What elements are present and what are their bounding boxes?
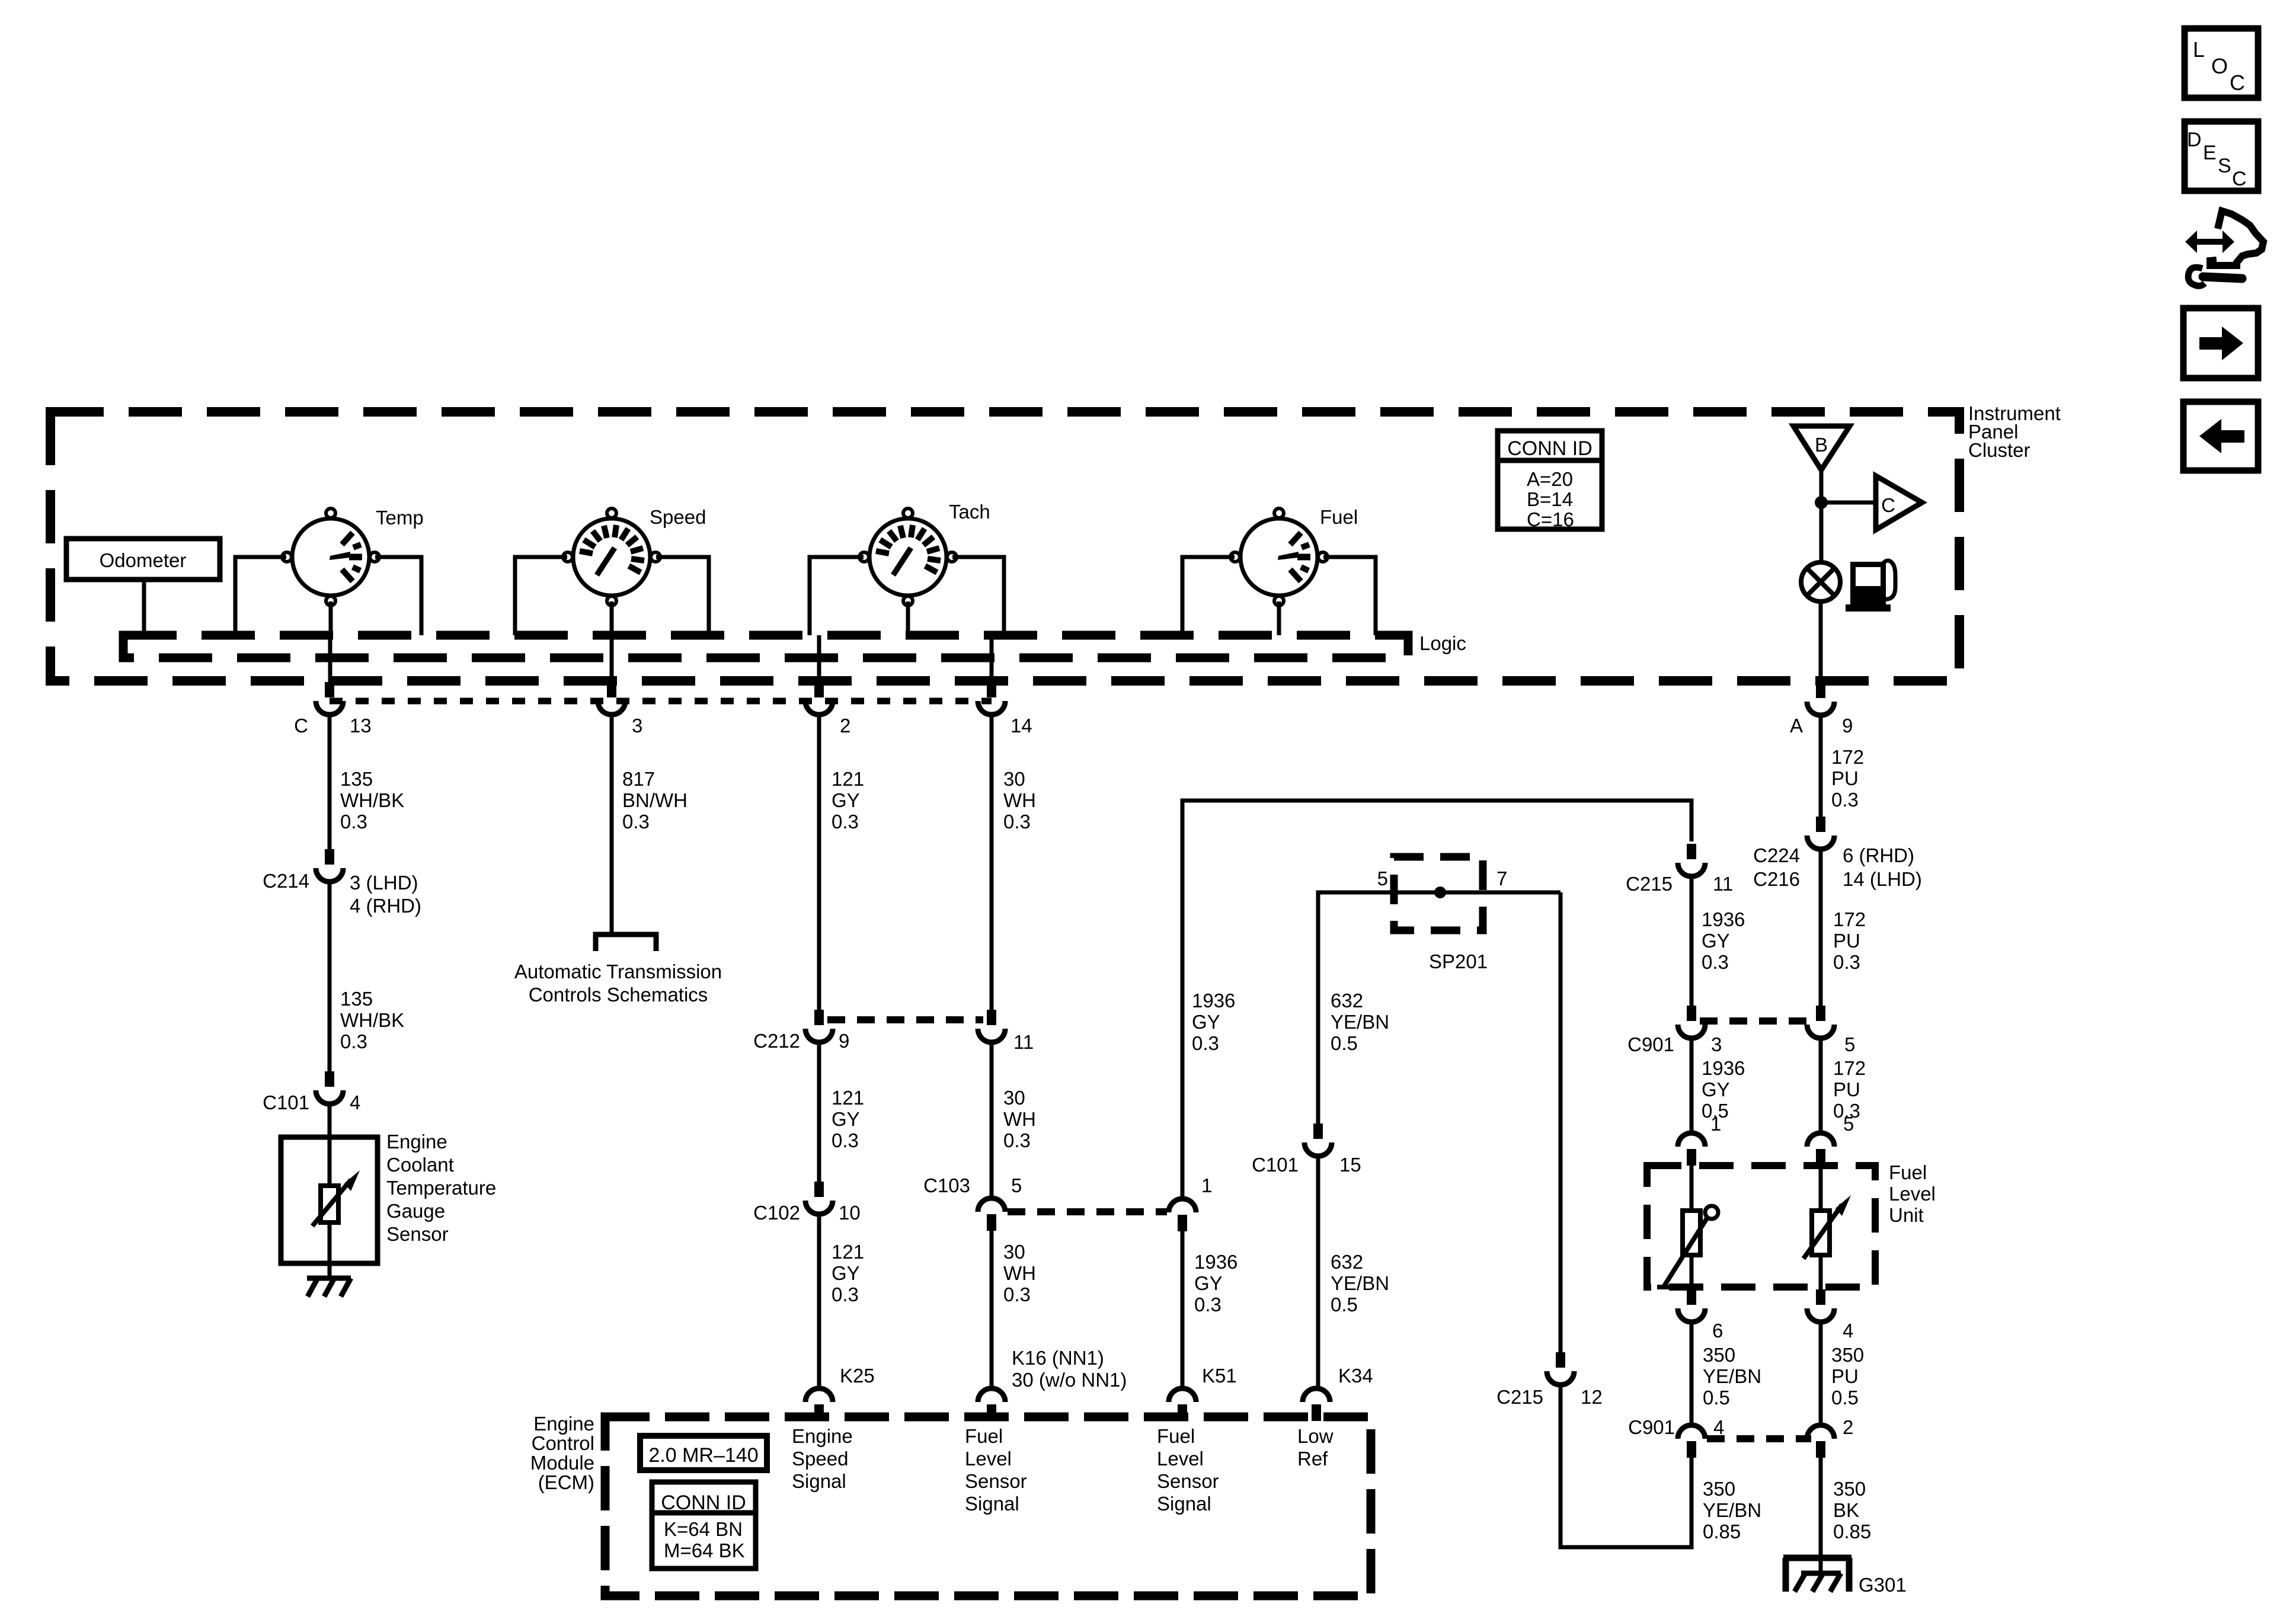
label C224 C216	[1753, 844, 1800, 890]
svg-text:GY: GY	[832, 1108, 860, 1130]
connector C102 pin 10	[805, 1182, 833, 1214]
svg-text:C: C	[294, 715, 308, 737]
connector pin 6	[1678, 1289, 1705, 1322]
icon back-arrow box	[2183, 402, 2258, 470]
wire 30 WH b	[990, 1042, 994, 1198]
svg-text:Automatic Transmission: Automatic Transmission	[514, 961, 722, 982]
wire speed right loop	[656, 557, 709, 635]
svg-text:9: 9	[1842, 715, 1853, 737]
svg-text:817: 817	[622, 768, 655, 790]
gauge Temp	[282, 508, 379, 606]
svg-text:1: 1	[1201, 1174, 1212, 1196]
label C212	[753, 1030, 800, 1052]
svg-text:B=14: B=14	[1527, 488, 1573, 510]
svg-text:172: 172	[1833, 1057, 1866, 1079]
wire odometer stem	[142, 580, 146, 635]
wire fuel right loop	[1323, 557, 1376, 635]
svg-text:Level: Level	[1889, 1183, 1936, 1205]
label Fuel Level Sensor Signal (1)	[965, 1425, 1027, 1515]
label 4 (pin)	[1843, 1320, 1853, 1342]
engine control module box	[605, 1417, 1371, 1596]
svg-text:Speed: Speed	[650, 506, 706, 528]
label 5 (fuel unit)	[1843, 1113, 1854, 1135]
svg-text:L: L	[2193, 37, 2205, 62]
svg-text:Temp: Temp	[376, 507, 424, 529]
label 12	[1581, 1386, 1603, 1408]
label 5 (SP201)	[1377, 868, 1388, 889]
svg-text:0.3: 0.3	[832, 811, 859, 833]
svg-text:Engine: Engine	[533, 1413, 594, 1435]
gauge Speed	[563, 508, 660, 606]
svg-text:0.3: 0.3	[1833, 951, 1860, 973]
wire 1936 GY top run	[1182, 801, 1691, 1198]
svg-text:C215: C215	[1626, 873, 1673, 895]
svg-text:C102: C102	[753, 1202, 800, 1224]
splice SP201 dot	[1434, 886, 1446, 898]
svg-text:0.3: 0.3	[1702, 951, 1729, 973]
svg-text:0.3: 0.3	[1194, 1294, 1221, 1315]
svg-text:632: 632	[1331, 990, 1363, 1012]
svg-text:D: D	[2187, 129, 2202, 151]
svg-text:Fuel: Fuel	[1889, 1161, 1927, 1183]
wire speed left loop	[515, 557, 567, 635]
svg-text:6: 6	[1712, 1320, 1723, 1342]
svg-text:1936: 1936	[1194, 1251, 1237, 1273]
svg-text:11: 11	[1013, 1031, 1034, 1053]
label 1936 GY 0.5	[1702, 1057, 1745, 1122]
wire tach left loop	[810, 557, 864, 635]
wire SP201 to C215-12	[1559, 892, 1563, 1352]
label 30 WH 0.3 a	[1003, 768, 1036, 833]
wire 121 GY b	[817, 1042, 821, 1182]
label Engine Control Module (ECM)	[530, 1413, 594, 1493]
svg-text:E: E	[2203, 142, 2217, 164]
label 2.0 MR-140 box	[640, 1436, 767, 1470]
label Fuel Level Unit	[1889, 1161, 1936, 1226]
dashed link C103	[1008, 1208, 1167, 1215]
svg-text:(ECM): (ECM)	[538, 1471, 594, 1493]
svg-text:Cluster: Cluster	[1968, 439, 2030, 461]
svg-text:GY: GY	[832, 1262, 860, 1284]
svg-text:Gauge: Gauge	[386, 1200, 445, 1222]
label 3 (LHD) 4 (RHD)	[350, 872, 421, 917]
wire temp to pin 13	[328, 635, 332, 682]
label Engine Speed Signal	[792, 1425, 853, 1492]
label 121 GY 0.3 a	[832, 768, 864, 833]
wire fuel left loop	[1182, 557, 1235, 635]
svg-text:Controls Schematics: Controls Schematics	[529, 984, 708, 1006]
connector K34	[1303, 1388, 1330, 1421]
connector C215 pin 12	[1547, 1352, 1574, 1385]
svg-text:0.3: 0.3	[1003, 1129, 1031, 1151]
svg-text:GY: GY	[1702, 1078, 1730, 1100]
svg-text:Sensor: Sensor	[1157, 1470, 1219, 1492]
label SP201	[1429, 950, 1488, 972]
svg-text:0.3: 0.3	[622, 811, 650, 833]
wire 632 YE/BN b	[1316, 1156, 1320, 1388]
label 172 PU 0.3 a	[1831, 746, 1864, 811]
svg-text:Fuel: Fuel	[1320, 506, 1358, 528]
label A	[1790, 715, 1803, 737]
svg-text:13: 13	[350, 715, 372, 737]
label 2 (C901)	[1843, 1416, 1853, 1438]
svg-text:5: 5	[1843, 1113, 1854, 1135]
gauge Tach	[859, 508, 957, 606]
svg-text:Speed: Speed	[792, 1448, 848, 1470]
svg-text:K25: K25	[840, 1365, 875, 1387]
svg-text:172: 172	[1833, 908, 1866, 930]
svg-text:GY: GY	[832, 789, 860, 811]
svg-text:WH: WH	[1003, 1262, 1036, 1284]
wire B to junction	[1819, 470, 1824, 562]
label 11	[1013, 1031, 1034, 1053]
label 30 WH 0.3 b	[1003, 1087, 1036, 1151]
wire tach bottom	[906, 601, 910, 635]
svg-text:0.3: 0.3	[832, 1129, 859, 1151]
svg-text:9: 9	[839, 1030, 849, 1052]
svg-text:350: 350	[1703, 1478, 1735, 1500]
svg-text:4: 4	[350, 1092, 360, 1113]
svg-text:Sensor: Sensor	[386, 1223, 449, 1245]
icon LOC box	[2185, 28, 2258, 98]
connector C901 pin 5	[1807, 1006, 1834, 1038]
label K51	[1202, 1365, 1237, 1387]
wire 121 GY c	[817, 1214, 821, 1388]
svg-text:0.3: 0.3	[340, 1030, 367, 1052]
offpage connector to transmission	[596, 934, 656, 951]
label 350 YE/BN 0.5	[1703, 1344, 1761, 1409]
svg-text:G301: G301	[1859, 1574, 1907, 1596]
svg-text:Coolant: Coolant	[386, 1154, 454, 1176]
svg-text:11: 11	[1713, 873, 1733, 895]
svg-text:PU: PU	[1833, 1078, 1860, 1100]
connector K25	[805, 1388, 833, 1421]
label C101 (15)	[1252, 1154, 1299, 1176]
label Logic	[1419, 632, 1466, 654]
wire 350 YE/BN b	[1560, 1385, 1691, 1547]
svg-text:C: C	[2232, 168, 2247, 190]
wire temp bottom	[329, 601, 333, 635]
connector C101 pin 4	[316, 1071, 343, 1104]
label 30 WH 0.3 c	[1003, 1241, 1036, 1305]
svg-text:Control: Control	[532, 1432, 594, 1454]
connector C212 pin 9	[805, 1010, 833, 1042]
svg-text:YE/BN: YE/BN	[1703, 1365, 1761, 1387]
svg-text:S: S	[2218, 155, 2231, 177]
label 350 YE/BN 0.85	[1703, 1478, 1761, 1542]
wire 1936 GY b	[1181, 1231, 1185, 1388]
wire 172 PU c	[1819, 1038, 1823, 1132]
label 135 WH/BK 0.3 lower	[340, 988, 404, 1052]
label 13	[350, 715, 372, 737]
connector C224/C216	[1807, 817, 1834, 849]
svg-text:0.3: 0.3	[1003, 1283, 1031, 1305]
svg-text:C216: C216	[1753, 868, 1800, 890]
dashed link C901 bottom	[1707, 1435, 1811, 1442]
svg-text:0.5: 0.5	[1331, 1294, 1358, 1315]
wire 30 WH a	[990, 713, 994, 1010]
svg-text:3: 3	[632, 715, 642, 737]
svg-text:2: 2	[1843, 1416, 1853, 1438]
svg-text:2.0 MR–140: 2.0 MR–140	[648, 1444, 758, 1467]
label 3	[632, 715, 642, 737]
wire fuel bottom	[1277, 601, 1281, 635]
svg-text:WH: WH	[1003, 789, 1036, 811]
svg-text:O: O	[2211, 54, 2228, 78]
svg-text:Signal: Signal	[792, 1470, 846, 1492]
svg-text:4: 4	[1843, 1320, 1853, 1342]
label 7 (SP201)	[1496, 868, 1507, 889]
connector pin 14	[978, 682, 1005, 715]
label 172 PU 0.3 b	[1833, 908, 1866, 973]
svg-text:YE/BN: YE/BN	[1331, 1011, 1389, 1033]
svg-text:Odometer: Odometer	[100, 549, 187, 571]
svg-text:Tach: Tach	[949, 501, 990, 523]
svg-text:4 (RHD): 4 (RHD)	[350, 895, 421, 917]
label 1936 GY 0.3 b	[1194, 1251, 1237, 1315]
label 632 YE/BN 0.5 b	[1331, 1251, 1389, 1315]
label 15	[1339, 1154, 1361, 1176]
svg-text:0.5: 0.5	[1831, 1387, 1859, 1409]
svg-text:6 (RHD): 6 (RHD)	[1843, 844, 1914, 866]
label 817 BN/WH 0.3	[622, 768, 687, 833]
svg-text:30: 30	[1003, 1087, 1025, 1109]
svg-text:3 (LHD): 3 (LHD)	[350, 872, 418, 894]
label 632 YE/BN 0.5 a	[1331, 990, 1389, 1054]
svg-text:3: 3	[1711, 1033, 1722, 1055]
label C215	[1626, 873, 1673, 895]
label Automatic Transmission Controls Schematics	[514, 961, 722, 1006]
label Fuel Level Sensor Signal (2)	[1157, 1425, 1219, 1515]
wire 350 YE/BN a	[1690, 1320, 1694, 1425]
label Tach	[949, 501, 990, 523]
wire sender to pin 6	[1690, 1255, 1694, 1289]
svg-text:1936: 1936	[1702, 908, 1745, 930]
label 350 PU 0.5	[1831, 1344, 1864, 1409]
resistor fuel level sender (left)	[1657, 1206, 1718, 1287]
wire 135 WH/BK lower	[328, 881, 332, 1071]
connector face line	[330, 698, 992, 705]
wire lamp to pin A9	[1819, 601, 1823, 683]
wire sender to pin 4	[1819, 1255, 1823, 1289]
svg-text:5: 5	[1011, 1174, 1022, 1196]
label 121 GY 0.3 b	[832, 1087, 864, 1151]
label 10	[839, 1202, 861, 1224]
svg-text:350: 350	[1833, 1478, 1866, 1500]
label Temp	[376, 507, 424, 529]
connector pin 2 (C901)	[1807, 1425, 1834, 1458]
svg-text:15: 15	[1339, 1154, 1361, 1176]
svg-text:YE/BN: YE/BN	[1331, 1272, 1389, 1294]
svg-text:Level: Level	[1157, 1448, 1204, 1470]
svg-text:0.5: 0.5	[1331, 1032, 1358, 1054]
wire C101 to sensor	[328, 1103, 332, 1186]
svg-text:C224: C224	[1753, 844, 1800, 866]
connector C pin 13	[316, 682, 343, 715]
svg-text:Module: Module	[530, 1452, 594, 1474]
net triangle B	[1793, 426, 1850, 470]
label C103	[923, 1174, 970, 1196]
wire temp left loop	[235, 557, 286, 635]
label 4 (C901)	[1713, 1416, 1724, 1438]
fuel pump icon	[1846, 561, 1895, 612]
svg-text:350: 350	[1703, 1344, 1735, 1366]
connector pin 5 (fuel unit)	[1807, 1133, 1834, 1166]
svg-text:PU: PU	[1831, 1365, 1859, 1387]
wire junction to C	[1821, 501, 1876, 505]
label 9	[1842, 715, 1853, 737]
label 135 WH/BK 0.3 upper	[340, 768, 404, 833]
connector pin 3	[598, 682, 625, 715]
svg-text:0.3: 0.3	[1192, 1032, 1219, 1054]
logic box	[123, 635, 1408, 658]
svg-text:12: 12	[1581, 1386, 1603, 1408]
svg-text:B: B	[1815, 434, 1828, 456]
svg-text:0.3: 0.3	[1831, 789, 1859, 811]
svg-text:A: A	[1790, 715, 1803, 737]
svg-text:7: 7	[1496, 868, 1507, 889]
svg-text:5: 5	[1377, 868, 1388, 889]
wire speed to pin 3	[610, 635, 614, 682]
label 1	[1201, 1174, 1212, 1196]
connector pin 4	[1807, 1289, 1834, 1322]
svg-text:SP201: SP201	[1429, 950, 1488, 972]
svg-text:Ref: Ref	[1297, 1448, 1328, 1470]
label 5 (C901)	[1844, 1033, 1855, 1055]
svg-text:GY: GY	[1702, 930, 1730, 952]
label 14	[1011, 715, 1032, 737]
svg-text:4: 4	[1713, 1416, 1724, 1438]
wire tach to pin 14	[990, 635, 994, 682]
svg-text:30: 30	[1003, 768, 1025, 790]
wire speed bottom	[610, 601, 614, 635]
wire 172 PU b	[1819, 849, 1823, 1006]
wire 121 GY a	[817, 713, 821, 1010]
label 1 (fuel unit)	[1710, 1113, 1721, 1135]
svg-text:C214: C214	[263, 870, 309, 892]
svg-text:30: 30	[1003, 1241, 1025, 1263]
icon DESC box	[2185, 121, 2258, 191]
svg-text:K34: K34	[1338, 1365, 1373, 1387]
svg-text:121: 121	[832, 1241, 864, 1263]
svg-text:C901: C901	[1627, 1033, 1674, 1055]
wire 1936 GY c	[1690, 876, 1694, 1006]
label 2	[840, 715, 850, 737]
connector C901 pin 3	[1678, 1006, 1705, 1038]
label 121 GY 0.3 c	[832, 1241, 864, 1305]
svg-text:C=16: C=16	[1527, 508, 1574, 530]
svg-text:121: 121	[832, 768, 864, 790]
dashed link C901 top	[1700, 1017, 1811, 1025]
svg-text:K=64 BN: K=64 BN	[664, 1518, 743, 1540]
svg-text:0.3: 0.3	[340, 811, 367, 833]
label Speed	[650, 506, 706, 528]
wire temp right loop	[375, 557, 421, 635]
svg-text:K16 (NN1): K16 (NN1)	[1012, 1347, 1104, 1369]
svg-text:1936: 1936	[1702, 1057, 1745, 1079]
svg-text:C101: C101	[1252, 1154, 1299, 1176]
label C901 (4)	[1628, 1416, 1675, 1438]
ground (ECT sensor)	[307, 1278, 351, 1297]
svg-text:PU: PU	[1831, 767, 1859, 789]
svg-text:C: C	[1881, 494, 1895, 516]
label K25	[840, 1365, 875, 1387]
svg-text:1: 1	[1710, 1113, 1721, 1135]
connector pin 1 (fuel unit)	[1678, 1133, 1705, 1166]
wire 350 BK	[1819, 1458, 1823, 1573]
conn id table (ECM)	[652, 1482, 756, 1569]
svg-text:0.85: 0.85	[1833, 1521, 1871, 1542]
label 11 (C215)	[1713, 873, 1733, 895]
svg-text:Signal: Signal	[1157, 1493, 1211, 1515]
label 1936 GY 0.3 c	[1702, 908, 1745, 973]
label 4	[350, 1092, 360, 1113]
connector pin 2	[805, 682, 833, 715]
svg-text:Low: Low	[1297, 1425, 1334, 1447]
svg-text:0.3: 0.3	[832, 1283, 859, 1305]
label 3 (C901)	[1711, 1033, 1722, 1055]
svg-text:1936: 1936	[1192, 990, 1235, 1012]
svg-text:C212: C212	[753, 1030, 800, 1052]
svg-text:121: 121	[832, 1087, 864, 1109]
svg-text:Engine: Engine	[386, 1131, 447, 1153]
label Engine Coolant Temperature Gauge Sensor	[386, 1131, 496, 1245]
label 6	[1712, 1320, 1723, 1342]
wire tach to pin 2	[817, 635, 821, 682]
svg-text:C215: C215	[1496, 1386, 1543, 1408]
svg-text:YE/BN: YE/BN	[1703, 1499, 1761, 1521]
connector C214	[316, 849, 343, 882]
svg-text:C901: C901	[1628, 1416, 1675, 1438]
svg-text:30 (w/o NN1): 30 (w/o NN1)	[1012, 1369, 1127, 1391]
wire into fuel unit right	[1819, 1166, 1823, 1211]
wire 817 BN/WH	[610, 713, 614, 932]
svg-text:135: 135	[340, 768, 373, 790]
connector K16	[978, 1388, 1005, 1421]
svg-text:5: 5	[1844, 1033, 1855, 1055]
label C102	[753, 1202, 800, 1224]
connector C901 pin 4	[1678, 1425, 1705, 1458]
svg-text:C101: C101	[263, 1092, 309, 1113]
instrument panel cluster box	[50, 412, 1959, 681]
resistor ECT sender	[312, 1170, 360, 1226]
connector C101 pin 15	[1304, 1124, 1332, 1156]
svg-text:BK: BK	[1833, 1499, 1859, 1521]
svg-text:10: 10	[839, 1202, 861, 1224]
connector K51	[1169, 1388, 1196, 1421]
wire 172 PU a	[1819, 714, 1823, 817]
svg-text:14: 14	[1011, 715, 1032, 737]
svg-text:PU: PU	[1833, 930, 1860, 952]
svg-text:WH/BK: WH/BK	[340, 1009, 404, 1031]
wire sensor to ground	[328, 1222, 332, 1278]
svg-text:C: C	[2230, 71, 2245, 95]
wire 135 WH/BK upper	[328, 713, 332, 849]
connector A pin 9	[1807, 683, 1834, 715]
fuel level unit box	[1647, 1166, 1875, 1287]
svg-text:Fuel: Fuel	[965, 1425, 1003, 1447]
svg-text:Fuel: Fuel	[1157, 1425, 1195, 1447]
icon forward-arrow box	[2183, 308, 2258, 378]
svg-text:WH/BK: WH/BK	[340, 789, 404, 811]
wire 632 YE/BN a	[1318, 892, 1560, 1124]
svg-text:CONN ID: CONN ID	[1507, 437, 1593, 460]
wire 1936 GY d	[1690, 1038, 1694, 1132]
svg-text:0.5: 0.5	[1703, 1387, 1730, 1409]
svg-text:Unit: Unit	[1889, 1204, 1924, 1226]
odometer box	[66, 539, 220, 580]
label Low Ref	[1297, 1425, 1334, 1470]
